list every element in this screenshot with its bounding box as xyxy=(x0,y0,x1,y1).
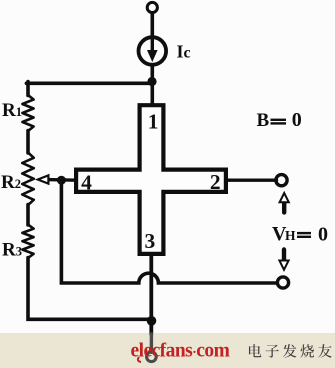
wiper wire of R2 to node B xyxy=(47,178,76,182)
terminal T1 (top current input) xyxy=(147,2,157,12)
node A junction dot xyxy=(147,77,156,86)
wire left rail bottom to node C xyxy=(28,258,152,320)
wiper arrow of R2 xyxy=(38,175,49,183)
wire T1 to current source xyxy=(151,13,155,38)
watermark logo elecfans.com xyxy=(131,341,230,362)
terminal T2 (upper right output) xyxy=(276,175,287,186)
watermark red swoosh xyxy=(138,357,141,362)
node C junction dot xyxy=(147,316,157,326)
terminal T4 (bottom, grey under watermark) xyxy=(147,352,157,362)
current source arrow xyxy=(151,38,154,52)
wire pin3 down to node C xyxy=(149,254,153,334)
VH arrow down xyxy=(282,250,286,261)
terminal T3 (lower right output) xyxy=(277,277,288,288)
current source Ic symbol circle xyxy=(139,37,167,65)
watermark background band xyxy=(0,333,335,368)
VH arrow up xyxy=(282,202,286,213)
wire R1 to R2 xyxy=(26,131,30,154)
hall element cross outline U1 xyxy=(76,105,226,254)
wire left rail top xyxy=(26,82,30,96)
watermark chinese text 电子发烧友 xyxy=(249,344,332,358)
resistor R1 xyxy=(22,95,33,131)
wire node B down and across to terminal T3 (with hop over pin3 wire) xyxy=(61,180,276,283)
wire pin2 to terminal T2 xyxy=(226,178,277,181)
wire node A to left rail xyxy=(26,82,152,86)
node B junction dot xyxy=(57,176,66,185)
wire current source to node A xyxy=(151,65,155,106)
resistor R2 (potentiometer) xyxy=(22,153,34,206)
wire node C to bottom terminal (grey under watermark) xyxy=(150,334,153,352)
wire R2 to R3 xyxy=(26,205,30,226)
resistor R3 xyxy=(22,225,33,259)
